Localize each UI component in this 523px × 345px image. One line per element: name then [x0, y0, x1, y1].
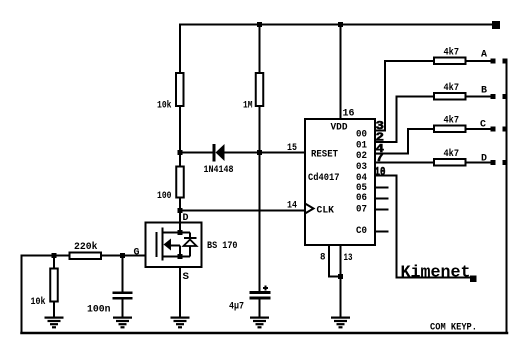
node: diode row at 1M vertical	[257, 150, 262, 155]
svg-text:4k7: 4k7	[444, 148, 460, 160]
svg-text:BS 170: BS 170	[207, 241, 238, 252]
wire IC pin5 stub	[375, 187, 388, 189]
wire vertical from rail to 10k	[179, 25, 181, 73]
resistor 4k7 D	[434, 148, 487, 166]
wire diode node to 100 resistor	[179, 153, 181, 166]
wire row B to square	[467, 96, 491, 98]
wire reset row: node to IC RESET	[180, 152, 305, 154]
node: rail junction at 1M	[257, 22, 262, 27]
wire IC pin13 down to ground	[340, 245, 342, 317]
wire vertical rail to IC pin16	[340, 25, 342, 120]
svg-text:COM KEYP.: COM KEYP.	[430, 323, 477, 334]
resistor 4k7 A	[434, 47, 487, 65]
wire IC pin3 stub up to row A	[375, 61, 433, 131]
wire 100n bottom to ground	[122, 300, 124, 318]
resistor 100	[157, 167, 184, 203]
resistor 10k left	[31, 269, 58, 309]
svg-text:00: 00	[356, 129, 367, 140]
node: drain dot inside	[178, 230, 183, 235]
wire IC pin07 stub	[375, 209, 388, 211]
svg-text:1M: 1M	[243, 101, 253, 112]
node: diode row at 10k	[178, 150, 183, 155]
resistor 220k	[70, 241, 102, 259]
connector pad row B	[503, 94, 508, 99]
svg-text:VDD: VDD	[331, 123, 348, 134]
node: clk row at drain	[178, 208, 183, 213]
svg-text:7: 7	[376, 151, 385, 165]
svg-text:A: A	[481, 50, 487, 61]
wire gate row from left to mosfet gate	[22, 255, 157, 257]
resistor 4k7 C	[434, 115, 486, 133]
terminal square row C	[491, 127, 496, 132]
node: rail junction at pin16	[338, 22, 343, 27]
terminal square Kimenet	[470, 276, 477, 283]
wire 10k-left top	[53, 256, 55, 268]
svg-text:Kimenet: Kimenet	[401, 263, 471, 282]
svg-text:4k7: 4k7	[444, 115, 460, 127]
svg-text:4µ7: 4µ7	[229, 302, 244, 313]
ground under 4u7	[250, 317, 269, 329]
wire left vertical down to bottom rail	[21, 256, 23, 334]
body diode cathode bar	[184, 237, 197, 239]
wire IC pin4 stub up to row C	[375, 129, 433, 154]
wire IC pin6 stub	[375, 198, 388, 200]
wire mosfet source down to ground	[179, 267, 181, 317]
node: gate row at 10k-left	[52, 253, 57, 258]
diode D1 1N4148	[204, 144, 234, 176]
terminal square row D	[491, 160, 496, 165]
wire 100n top	[122, 256, 124, 292]
wire IC pin7 row D	[375, 162, 433, 164]
wire 100 bottom to clk node	[179, 199, 181, 212]
wire 4u7 bottom to ground	[259, 300, 261, 318]
svg-text:03: 03	[356, 162, 367, 173]
svg-text:S: S	[183, 272, 190, 283]
ground under 10k left	[45, 317, 64, 329]
bottom common rail	[22, 332, 508, 335]
IC U1 CD4017	[287, 109, 386, 265]
wire clk row to IC CLK	[180, 210, 305, 212]
mid source connection	[171, 246, 180, 257]
svg-text:16: 16	[343, 109, 355, 120]
svg-text:100: 100	[157, 191, 172, 202]
svg-text:C0: C0	[356, 226, 367, 237]
svg-text:13: 13	[344, 253, 353, 264]
resistor 4k7 B	[434, 82, 487, 100]
terminal square top right	[492, 21, 500, 29]
node: pin8 joins pin13	[338, 274, 343, 279]
svg-text:02: 02	[356, 151, 367, 162]
bottom connection	[162, 256, 191, 258]
svg-text:15: 15	[287, 143, 297, 154]
wire row C to square	[467, 128, 491, 130]
wire Kimenet underline to square	[397, 277, 471, 279]
svg-text:220k: 220k	[74, 241, 98, 253]
wire IC pin8 down and right	[329, 245, 341, 277]
wire IC pin2 stub up to row B	[375, 97, 433, 143]
wire 1M bottom down to 4u7 cap	[259, 107, 261, 291]
svg-text:4k7: 4k7	[444, 47, 460, 59]
gate line	[156, 232, 158, 257]
wire vertical rail to 1M	[259, 25, 261, 73]
ground under 100n	[113, 317, 132, 329]
svg-text:D: D	[481, 154, 487, 165]
svg-text:G: G	[134, 248, 140, 259]
connector pad row C	[503, 127, 508, 132]
clock input triangle	[305, 204, 314, 214]
svg-text:8: 8	[320, 253, 326, 264]
svg-text:1N4148: 1N4148	[204, 165, 234, 176]
wire 10k bottom to diode node	[179, 107, 181, 153]
wire IC C0 stub	[375, 231, 388, 233]
capacitor 100n	[87, 292, 133, 316]
wire connector bus vertical	[506, 61, 508, 333]
terminal square row B	[491, 94, 496, 99]
node: gate row at 100n	[120, 253, 125, 258]
svg-text:01: 01	[356, 140, 367, 151]
resistor 10k top	[157, 73, 184, 112]
svg-text:07: 07	[356, 204, 367, 215]
svg-text:CLK: CLK	[317, 206, 335, 217]
ground under IC pin13	[331, 317, 350, 329]
drain inside	[162, 223, 181, 233]
capacitor 4u7 electrolytic	[229, 286, 271, 313]
connector pad row A	[503, 59, 508, 64]
svg-text:4k7: 4k7	[444, 82, 460, 94]
terminal square row A	[491, 59, 496, 64]
channel line	[162, 228, 164, 261]
svg-text:10: 10	[375, 165, 386, 179]
arrow on source	[164, 239, 172, 251]
wire top power rail	[180, 24, 492, 26]
svg-text:B: B	[481, 86, 487, 97]
body diode triangle outline	[184, 240, 197, 247]
svg-text:10k: 10k	[31, 296, 46, 308]
wire row D to square	[467, 162, 491, 164]
wire IC pin10 stub down to Kimenet	[375, 176, 397, 278]
svg-text:14: 14	[287, 201, 297, 212]
svg-text:06: 06	[356, 193, 367, 204]
wire 10k-left bottom to ground	[53, 303, 55, 318]
svg-text:100n: 100n	[87, 305, 111, 316]
connector pad row D	[503, 160, 508, 165]
svg-text:10k: 10k	[157, 100, 172, 112]
node: source dot inside	[178, 254, 183, 259]
svg-text:D: D	[183, 213, 189, 224]
svg-text:Cd4017: Cd4017	[308, 172, 340, 184]
body diode stem	[180, 233, 190, 257]
ground under mosfet source	[171, 317, 190, 329]
wire row A to square	[467, 60, 491, 62]
svg-text:C: C	[480, 120, 486, 131]
resistor 1M	[243, 73, 263, 112]
svg-text:RESET: RESET	[311, 150, 338, 161]
transistor Q1 BS170	[134, 213, 238, 283]
wire drain into mosfet	[179, 211, 181, 233]
